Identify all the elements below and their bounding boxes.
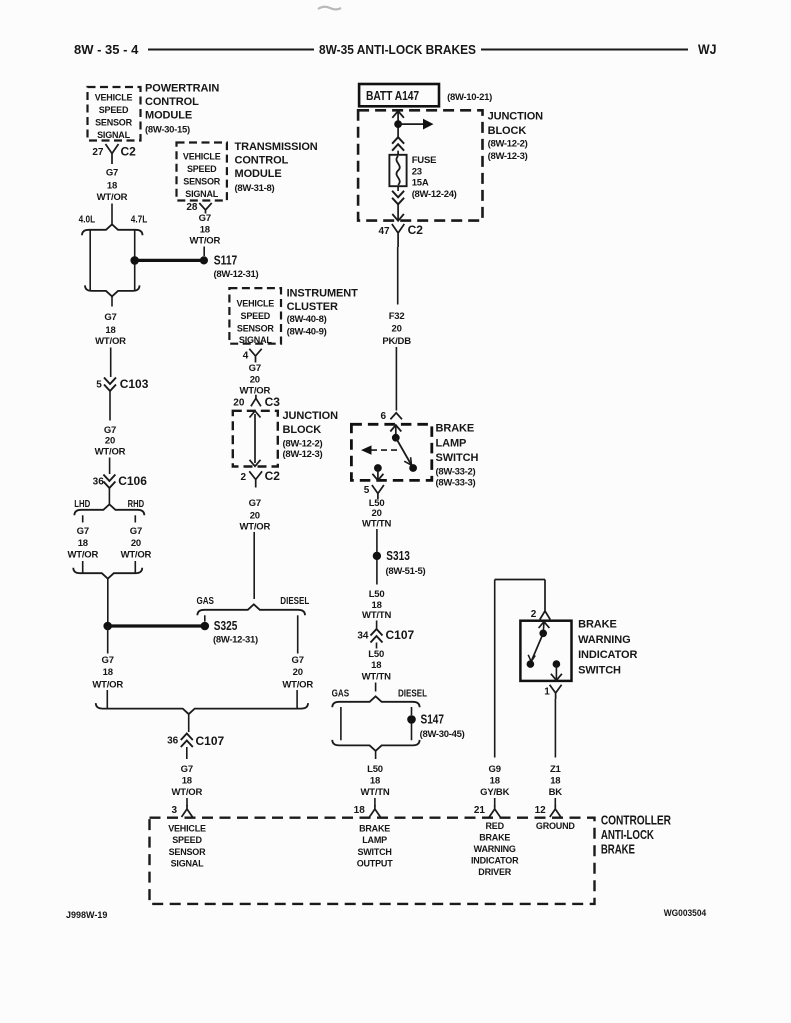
svg-text:23: 23	[412, 166, 422, 177]
svg-text:RHD: RHD	[128, 499, 145, 510]
PCM internal label VEHICLE SPEED SENSOR SIGNAL	[95, 93, 133, 141]
svg-text:WT/OR: WT/OR	[282, 679, 313, 690]
splice S325 junction dot on left column	[103, 622, 112, 631]
label GAS branch 2	[332, 689, 350, 700]
label RHD branch	[128, 499, 145, 510]
svg-text:VEHICLE: VEHICLE	[95, 93, 133, 103]
splice S313	[373, 549, 426, 577]
svg-text:Z1: Z1	[550, 764, 562, 775]
svg-text:WT/TN: WT/TN	[362, 610, 391, 621]
label 4.0L branch	[79, 215, 96, 226]
svg-text:WT/OR: WT/OR	[239, 521, 270, 532]
svg-text:G7: G7	[106, 168, 118, 179]
junction block (upper) box	[358, 110, 482, 220]
svg-text:WT/OR: WT/OR	[67, 549, 98, 560]
battery feed BATT A147 box	[359, 84, 492, 106]
svg-text:SIGNAL: SIGNAL	[171, 858, 205, 868]
svg-text:4: 4	[243, 351, 249, 362]
brake lamp switch output contact with arrow down	[372, 464, 383, 480]
connector at controller pin 3	[182, 805, 193, 817]
svg-text:J998W-19: J998W-19	[66, 910, 107, 920]
svg-text:20: 20	[372, 508, 382, 519]
connector at brake lamp switch pin 6	[390, 413, 402, 420]
svg-text:(8W-51-5): (8W-51-5)	[386, 566, 426, 577]
svg-text:2: 2	[240, 472, 246, 483]
label DIESEL branch	[280, 596, 309, 607]
svg-text:15A: 15A	[412, 178, 429, 189]
wire GAS branch 2	[340, 707, 342, 740]
svg-text:18: 18	[354, 805, 366, 816]
svg-text:LAMP: LAMP	[362, 835, 387, 845]
page header	[74, 41, 717, 57]
pin 2	[531, 609, 537, 620]
connector C2 at PCM pin 27	[106, 144, 137, 164]
wire DIESEL stub to S147	[411, 707, 413, 715]
svg-text:GAS: GAS	[196, 596, 214, 607]
svg-text:(8W-12-3): (8W-12-3)	[488, 151, 528, 162]
brace split GAS/DIESEL	[197, 604, 305, 615]
wire to C103	[110, 348, 112, 378]
svg-text:VEHICLE: VEHICLE	[236, 299, 274, 309]
connector C2 junction block lower	[249, 469, 280, 487]
label LHD branch	[74, 499, 90, 510]
svg-text:WT/OR: WT/OR	[121, 549, 152, 560]
powertrain control module PCM box	[88, 87, 141, 141]
svg-text:DIESEL: DIESEL	[398, 689, 427, 700]
svg-text:BK: BK	[549, 787, 563, 798]
wire G9 stub	[494, 798, 496, 806]
wire label G7 18 WT/OR (to controller)	[171, 764, 202, 798]
wire splice S117 horizontal	[135, 259, 204, 262]
fuse value label FUSE 23 15A (8W-12-24)	[412, 155, 457, 200]
wire L50 to S313	[376, 529, 378, 552]
svg-text:DRIVER: DRIVER	[478, 867, 512, 877]
wire GAS stub to S325	[204, 615, 206, 621]
svg-text:G7: G7	[102, 655, 114, 666]
wire branch arrow right (feed to other circuits)	[398, 119, 433, 130]
svg-text:RED: RED	[485, 821, 504, 831]
brace split GAS/DIESEL 2	[332, 696, 419, 707]
svg-text:(8W-10-21): (8W-10-21)	[447, 92, 492, 103]
svg-text:SPEED: SPEED	[99, 105, 129, 115]
wire LHD/RHD join to S325	[107, 579, 109, 626]
controller pin function label: red brake warning indicator driver	[471, 821, 519, 877]
svg-text:DIESEL: DIESEL	[280, 596, 309, 607]
svg-text:C107: C107	[386, 628, 415, 642]
svg-text:WT/TN: WT/TN	[362, 672, 391, 683]
svg-text:S325: S325	[214, 619, 238, 633]
wire label G7 20 WT/OR (below C103)	[95, 425, 126, 458]
wire label F32 20 PK/DB	[382, 311, 411, 347]
svg-text:WT/TN: WT/TN	[362, 519, 391, 530]
svg-text:SENSOR: SENSOR	[237, 323, 275, 333]
brace join 4.0L/4.7L	[85, 285, 140, 296]
svg-text:SPEED: SPEED	[172, 835, 202, 845]
svg-text:SIGNAL: SIGNAL	[97, 130, 131, 140]
pin 4	[243, 351, 249, 362]
wire 4.0L branch	[89, 230, 91, 291]
svg-text:3: 3	[171, 805, 177, 816]
transmission control module TCM box	[177, 143, 227, 201]
controller pin function label: ground	[536, 821, 575, 831]
connector C3 junction block	[251, 395, 280, 409]
junction block (lower) box	[233, 411, 278, 467]
svg-text:(8W-12-24): (8W-12-24)	[412, 189, 457, 200]
controller pin function label: vehicle speed sensor signal	[168, 824, 206, 869]
wire label L50 18 WT/TN (lower)	[362, 649, 391, 683]
TCM internal label VEHICLE SPEED SENSOR SIGNAL	[183, 152, 221, 199]
svg-text:S117: S117	[214, 254, 238, 268]
svg-text:C106: C106	[118, 474, 147, 488]
svg-text:18: 18	[371, 660, 381, 671]
svg-text:(8W-33-2): (8W-33-2)	[436, 466, 476, 477]
svg-text:G9: G9	[489, 764, 501, 775]
svg-text:SENSOR: SENSOR	[95, 118, 133, 128]
brace join LHD/RHD	[73, 568, 142, 579]
svg-text:20: 20	[293, 667, 303, 678]
wire DIESEL branch down	[297, 615, 299, 653]
brake lamp switch name label	[436, 423, 479, 489]
wire label G7 20 WT/OR (RHD)	[121, 526, 152, 561]
pin 34 (C107)	[357, 630, 369, 641]
svg-text:18: 18	[105, 325, 115, 336]
svg-text:5: 5	[364, 485, 370, 496]
wire C107 center below	[376, 643, 378, 649]
svg-text:G7: G7	[104, 425, 116, 436]
svg-text:28: 28	[186, 202, 198, 213]
pin 21	[474, 805, 486, 816]
wire label L50 18 WT/TN (to controller)	[360, 764, 389, 798]
svg-text:CONTROL: CONTROL	[235, 155, 289, 167]
brake lamp switch actuation dashed arrow	[361, 445, 397, 454]
brake warning indicator switch box	[520, 621, 571, 681]
pin 5	[96, 379, 102, 390]
svg-text:ANTI-LOCK: ANTI-LOCK	[601, 827, 655, 842]
svg-text:F32: F32	[389, 311, 405, 322]
svg-text:GROUND: GROUND	[536, 821, 575, 831]
label 4.7L branch	[131, 215, 148, 226]
wire to C107 center	[376, 621, 378, 630]
svg-text:(8W-12-31): (8W-12-31)	[213, 635, 258, 646]
svg-text:CLUSTER: CLUSTER	[287, 301, 338, 313]
svg-text:4.0L: 4.0L	[79, 215, 96, 226]
fuse F23	[389, 151, 406, 187]
wire C106 to LHD/RHD split	[108, 488, 110, 505]
svg-text:LAMP: LAMP	[436, 438, 467, 450]
controller pin function label: brake lamp switch output	[357, 824, 394, 869]
svg-text:SWITCH: SWITCH	[578, 664, 621, 676]
wire through junction block with arrows	[250, 411, 261, 466]
svg-text:C3: C3	[265, 395, 281, 409]
wire label G7 18 WT/OR (LHD)	[67, 526, 98, 561]
svg-text:WARNING: WARNING	[578, 634, 630, 646]
svg-text:WT/OR: WT/OR	[95, 447, 126, 458]
svg-text:INDICATOR: INDICATOR	[578, 649, 637, 661]
svg-text:G7: G7	[130, 526, 142, 537]
svg-text:SENSOR: SENSOR	[169, 847, 207, 857]
wire G9 down to controller	[494, 580, 496, 758]
svg-text:MODULE: MODULE	[145, 110, 192, 122]
svg-text:POWERTRAIN: POWERTRAIN	[145, 83, 219, 95]
svg-text:L50: L50	[367, 764, 383, 775]
wire Z1 stub	[554, 798, 556, 806]
wire TCM to S117	[203, 247, 205, 257]
wire 4.7L branch	[134, 230, 136, 291]
svg-text:G7: G7	[199, 213, 211, 224]
svg-text:INDICATOR: INDICATOR	[471, 855, 519, 865]
pin 36	[93, 476, 105, 487]
svg-text:(8W-12-2): (8W-12-2)	[283, 438, 323, 449]
svg-text:(8W-12-2): (8W-12-2)	[488, 139, 528, 150]
svg-text:SWITCH: SWITCH	[436, 452, 479, 464]
controller anti-lock brake box	[150, 818, 595, 904]
svg-text:18: 18	[370, 776, 380, 787]
svg-text:WT/OR: WT/OR	[171, 787, 202, 798]
connector C107 (center, chevrons up)	[371, 628, 415, 643]
svg-text:(8W-33-3): (8W-33-3)	[436, 478, 476, 489]
connector at cluster pin 4	[249, 349, 261, 363]
connector C106 (in-line, chevrons down)	[103, 474, 147, 488]
svg-text:WT/OR: WT/OR	[97, 192, 128, 203]
svg-text:TRANSMISSION: TRANSMISSION	[235, 141, 318, 153]
junction block (upper) name label	[488, 111, 544, 162]
svg-text:20: 20	[392, 323, 402, 334]
svg-text:VEHICLE: VEHICLE	[183, 152, 221, 162]
brake warning indicator switch internal contacts	[527, 622, 562, 681]
svg-text:G7: G7	[181, 764, 193, 775]
pin 20	[233, 398, 245, 409]
pin 3	[171, 805, 177, 816]
svg-text:VEHICLE: VEHICLE	[168, 824, 206, 834]
connector chevrons above fuse	[392, 137, 404, 151]
splice S325	[201, 619, 258, 645]
wire C2 to F32 label	[397, 247, 399, 305]
connector C107 (in-line, chevrons up)	[181, 734, 225, 749]
wire label L50 20 WT/TN	[362, 498, 391, 530]
svg-text:(8W-12-31): (8W-12-31)	[214, 269, 259, 280]
svg-text:8W - 35 - 4: 8W - 35 - 4	[74, 42, 139, 57]
svg-text:20: 20	[250, 375, 260, 386]
svg-text:C2: C2	[408, 223, 424, 237]
svg-text:BLOCK: BLOCK	[283, 424, 322, 436]
wire JB to GAS/DIESEL split	[253, 532, 255, 599]
wire label G7 20 WT/OR (diesel)	[282, 655, 313, 690]
wire RHD stub lower	[134, 561, 136, 573]
svg-text:BRAKE: BRAKE	[601, 842, 635, 857]
svg-text:36: 36	[167, 736, 179, 747]
pin 47	[378, 226, 390, 237]
label GAS branch	[196, 596, 214, 607]
wire label G7 18 WT/OR (below split)	[95, 312, 126, 347]
svg-text:5: 5	[96, 379, 102, 390]
connector at brake lamp switch pin 5	[372, 485, 384, 499]
svg-text:WT/OR: WT/OR	[189, 236, 220, 247]
brake warning indicator switch name label	[578, 619, 637, 677]
svg-text:47: 47	[378, 226, 390, 237]
brace split LHD/RHD	[74, 504, 144, 515]
wire fuse to junction block bottom with arrow down	[392, 204, 404, 221]
svg-text:JUNCTION: JUNCTION	[283, 410, 339, 422]
svg-text:SPEED: SPEED	[241, 311, 271, 321]
svg-text:SIGNAL: SIGNAL	[239, 335, 273, 345]
svg-text:G7: G7	[104, 312, 116, 323]
wire S325 down left column	[107, 626, 109, 654]
svg-text:18: 18	[182, 776, 192, 787]
svg-text:27: 27	[92, 147, 104, 158]
svg-text:4.7L: 4.7L	[131, 215, 148, 226]
svg-text:G7: G7	[249, 363, 261, 374]
svg-text:BRAKE: BRAKE	[578, 619, 617, 631]
svg-text:21: 21	[474, 805, 486, 816]
svg-text:WJ: WJ	[698, 41, 717, 57]
svg-text:(8W-40-9): (8W-40-9)	[287, 326, 327, 337]
brake lamp switch internal contacts	[390, 425, 417, 472]
wire label G7 20 WT/OR (JB out)	[239, 498, 270, 532]
svg-text:C2: C2	[121, 145, 137, 159]
svg-text:INSTRUMENT: INSTRUMENT	[287, 287, 358, 299]
svg-text:BATT A147: BATT A147	[366, 88, 419, 103]
wire label L50 18 WT/TN (mid)	[362, 589, 391, 621]
splice S117 junction dot on 4.7L branch	[130, 256, 139, 265]
svg-text:G7: G7	[249, 498, 261, 509]
brake lamp switch box	[351, 424, 431, 480]
svg-text:(8W-12-3): (8W-12-3)	[283, 449, 323, 460]
svg-text:12: 12	[535, 805, 547, 816]
splice S147	[407, 713, 464, 740]
wire LHD stub	[82, 515, 84, 522]
svg-text:20: 20	[250, 510, 260, 521]
node junction dot in junction block	[394, 120, 402, 128]
svg-text:18: 18	[107, 180, 117, 191]
brace join to C107	[96, 703, 308, 714]
svg-text:SPEED: SPEED	[187, 164, 217, 174]
svg-text:FUSE: FUSE	[412, 155, 437, 166]
wire label G7 20 WT/OR (cluster)	[239, 363, 270, 397]
pin 1	[544, 687, 550, 698]
junction block (lower) name label	[283, 410, 339, 460]
wire S147 to join 2	[411, 724, 413, 741]
wire C103 to G7 label	[109, 391, 111, 421]
svg-text:20: 20	[233, 398, 245, 409]
svg-text:1: 1	[544, 687, 550, 698]
wire Z1 ground wire	[554, 699, 556, 758]
svg-text:WG003504: WG003504	[664, 908, 707, 919]
svg-text:BRAKE: BRAKE	[359, 824, 390, 834]
svg-text:SIGNAL: SIGNAL	[185, 189, 219, 199]
svg-text:JUNCTION: JUNCTION	[488, 111, 544, 123]
footer drawing number	[664, 908, 707, 919]
connector at warning switch pin 2	[540, 608, 550, 620]
connector C103 (in-line, chevrons down)	[104, 377, 149, 391]
splice S117	[200, 254, 259, 280]
pin 28	[186, 202, 198, 213]
pin 2	[240, 472, 246, 483]
svg-text:CONTROL: CONTROL	[145, 96, 199, 108]
pin 6	[380, 411, 386, 422]
svg-text:WT/OR: WT/OR	[95, 336, 126, 347]
wire to C106	[109, 458, 111, 475]
svg-text:S147: S147	[421, 713, 445, 727]
pin 5	[364, 485, 370, 496]
wire LHD stub lower	[82, 561, 84, 573]
svg-text:WARNING: WARNING	[474, 844, 516, 854]
svg-text:(8W-30-45): (8W-30-45)	[420, 729, 465, 740]
wire diesel branch to big join	[296, 690, 298, 709]
PCM name label	[145, 83, 219, 136]
wire RHD stub	[134, 515, 136, 522]
connector C2 at junction block output	[392, 223, 423, 247]
instrument cluster name label	[287, 287, 358, 337]
TCM name label	[235, 141, 318, 194]
wire left column to big join	[106, 690, 108, 709]
brace split 4.0L/4.7L	[82, 224, 143, 235]
svg-text:18: 18	[490, 776, 500, 787]
pin 12	[535, 805, 547, 816]
wire label G7 18 WT/OR (PCM)	[97, 168, 128, 204]
pin 27	[92, 147, 104, 158]
label DIESEL branch 2	[398, 689, 427, 700]
wire splice S325 horizontal	[108, 624, 205, 627]
svg-text:(8W-31-8): (8W-31-8)	[235, 183, 275, 194]
wire label G9 18 GY/BK	[480, 764, 509, 798]
svg-text:WT/OR: WT/OR	[92, 679, 123, 690]
svg-text:2: 2	[531, 609, 537, 620]
svg-text:L50: L50	[369, 589, 385, 600]
pin 36 (C107)	[167, 736, 179, 747]
connector at TCM pin 28	[199, 203, 211, 214]
svg-text:BLOCK: BLOCK	[488, 125, 527, 137]
wire big join to C107	[188, 714, 190, 732]
svg-text:GY/BK: GY/BK	[480, 787, 509, 798]
svg-text:6: 6	[380, 411, 386, 422]
wire to controller pin 18	[374, 798, 376, 806]
svg-text:BRAKE: BRAKE	[436, 423, 475, 435]
instrument cluster box	[229, 288, 281, 344]
svg-text:SWITCH: SWITCH	[357, 847, 391, 857]
connector chevrons below fuse	[392, 186, 404, 204]
connector at controller pin 18	[369, 805, 380, 817]
wire engine join to G7 label	[111, 297, 113, 307]
wire C107 to G7 label (bottom left)	[186, 747, 188, 759]
pin 18	[354, 805, 366, 816]
svg-text:G7: G7	[77, 526, 89, 537]
wire BATT to fuse with arrow up	[392, 111, 404, 137]
wire join 2 down	[375, 751, 377, 759]
svg-text:G7: G7	[292, 655, 304, 666]
svg-text:LHD: LHD	[74, 499, 90, 510]
svg-text:MODULE: MODULE	[235, 168, 282, 180]
svg-text:(8W-30-15): (8W-30-15)	[145, 124, 190, 135]
wire G9 riser and crossover to warning switch	[495, 580, 545, 608]
wire label G7 18 WT/OR (TCM)	[189, 213, 220, 247]
svg-text:PK/DB: PK/DB	[382, 336, 411, 347]
svg-text:C2: C2	[265, 469, 281, 483]
wire to GAS/DIESEL split 2	[375, 683, 377, 692]
footer sheet number	[66, 910, 107, 920]
svg-text:8W-35 ANTI-LOCK BRAKES: 8W-35 ANTI-LOCK BRAKES	[319, 42, 476, 57]
svg-text:34: 34	[357, 630, 369, 641]
svg-text:18: 18	[550, 776, 560, 787]
wire to controller pin 3	[186, 798, 188, 806]
svg-text:CONTROLLER: CONTROLLER	[601, 813, 672, 828]
connector at controller pin 21	[489, 805, 500, 817]
svg-text:20: 20	[105, 436, 115, 447]
svg-text:L50: L50	[368, 649, 384, 660]
brace join GAS/DIESEL 2	[332, 740, 419, 751]
svg-text:(8W-40-8): (8W-40-8)	[287, 314, 327, 325]
svg-text:GAS: GAS	[332, 689, 350, 700]
connector at warning switch pin 1	[550, 685, 562, 699]
